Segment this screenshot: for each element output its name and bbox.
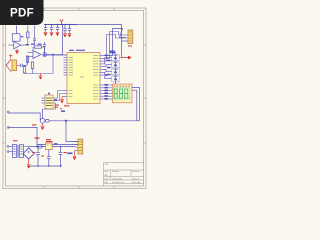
net label U4 out bbox=[54, 143, 57, 144]
designator text VCC red bbox=[35, 138, 40, 139]
wire ground rail bbox=[29, 165, 62, 167]
DS1 digit 2 bbox=[120, 89, 123, 98]
DS1 pin number text bbox=[114, 85, 131, 88]
power port VCC drivers bbox=[122, 56, 131, 59]
U4 pin text bbox=[47, 144, 52, 147]
transformer T1 bbox=[13, 145, 24, 158]
op-amp U3A box bbox=[12, 26, 20, 49]
connector J2 bbox=[128, 30, 133, 44]
designator U2 label bbox=[69, 50, 85, 51]
junction dots on rail bbox=[45, 24, 71, 26]
net label U5 bbox=[54, 99, 57, 101]
transistor Q4 bbox=[112, 62, 119, 68]
ground GND under C5 bbox=[68, 34, 72, 37]
capacitor C5 bbox=[68, 25, 71, 34]
DS1 decimal points bbox=[118, 97, 130, 100]
resistor R4 feedback bbox=[35, 46, 42, 48]
microcontroller U2 bbox=[67, 53, 100, 104]
node top of U5 bbox=[48, 92, 50, 94]
label U3 bbox=[21, 36, 24, 37]
power port VCC bbox=[60, 20, 64, 25]
DS1 green face bbox=[113, 87, 130, 100]
net labels drivers bbox=[107, 60, 111, 75]
microphone body MK1 bbox=[12, 60, 17, 71]
buzzer LS1 bbox=[45, 119, 49, 122]
designator text U5 bbox=[55, 105, 60, 108]
wire driver chain bbox=[115, 82, 117, 85]
label text below U2 bbox=[64, 105, 70, 106]
terminal AC input 2 bbox=[7, 151, 9, 153]
capacitor C8 bbox=[21, 64, 28, 67]
sheet frame outer border bbox=[3, 8, 146, 189]
label text drivers bbox=[110, 52, 115, 53]
U2 right pins bbox=[100, 56, 104, 100]
designator text T1 bbox=[13, 140, 18, 141]
capacitor C3 bbox=[56, 25, 59, 32]
node junction bbox=[44, 54, 46, 56]
ground GND opamp bbox=[39, 74, 43, 80]
net label marks bbox=[105, 55, 108, 100]
U2 left pins bbox=[64, 58, 68, 97]
ground GND under C1 bbox=[44, 32, 48, 35]
sheet frame inner border bbox=[6, 11, 144, 187]
op-amp U3B bbox=[33, 51, 41, 59]
wire bridge output rail bbox=[29, 146, 46, 148]
wire feedback loop bbox=[25, 47, 63, 74]
transistor Q2 bbox=[40, 119, 45, 124]
capacitor C9 bbox=[36, 147, 40, 167]
ground GND preamp bbox=[15, 50, 19, 53]
regulator U4 7805 bbox=[46, 143, 53, 150]
DS1 digit 3 bbox=[125, 89, 128, 98]
J3 internal pins bbox=[79, 142, 82, 151]
wire U2 to display segment lines bbox=[104, 85, 108, 99]
wire regulator output bbox=[52, 146, 74, 148]
terminal dot 1 bbox=[7, 111, 9, 113]
transistor Q3 bbox=[112, 55, 122, 61]
ground GND mic bbox=[9, 55, 12, 58]
net label SPK bbox=[61, 111, 65, 112]
wire U5 to U2 crystal pins bbox=[43, 91, 64, 110]
page background bbox=[0, 0, 149, 198]
power rail VCC wire bbox=[44, 25, 122, 58]
DS1 digit 1 bbox=[114, 89, 117, 98]
wire transformer to bridge bbox=[23, 147, 29, 157]
J3 pin stubs bbox=[75, 142, 79, 151]
transistor Q1 bbox=[43, 53, 47, 57]
designator text U4 7805 bbox=[46, 139, 53, 142]
svg-text:4-Apr-2008: 4-Apr-2008 bbox=[112, 177, 123, 180]
terminal dot 2 bbox=[7, 127, 9, 129]
wire display right returns bbox=[65, 88, 139, 122]
capacitor C7 bbox=[33, 37, 36, 44]
PDF badge bbox=[0, 0, 44, 25]
U5 pin stubs bbox=[42, 93, 50, 104]
wire mic to coupling cap bbox=[17, 64, 20, 66]
title block labels bbox=[105, 163, 142, 184]
net label bus bbox=[109, 51, 116, 54]
U2 pin name text bbox=[69, 55, 99, 99]
svg-text:Sheet of: Sheet of bbox=[132, 177, 140, 180]
designator text C9 bbox=[32, 152, 44, 157]
display pin stubs bbox=[108, 85, 112, 99]
svg-text:Drawn By:: Drawn By: bbox=[132, 182, 142, 184]
microphone MK1 bbox=[6, 59, 11, 72]
wire AC leads bbox=[9, 147, 13, 152]
capacitor C2 bbox=[50, 25, 53, 32]
ground GND under C4 bbox=[63, 34, 67, 37]
resistor R2 bbox=[26, 56, 28, 63]
svg-text:Revision: Revision bbox=[132, 171, 140, 173]
transistor Q5 bbox=[112, 69, 119, 75]
resistor R3 bbox=[23, 67, 25, 74]
capacitor C1 bbox=[44, 25, 47, 32]
transistor Q6 bbox=[112, 76, 119, 82]
terminal AC input 1 bbox=[7, 146, 9, 148]
capacitor C10 bbox=[47, 150, 51, 166]
inductor L1 bbox=[37, 145, 43, 148]
ground GND under C2 bbox=[50, 32, 54, 35]
designator text R6 bbox=[32, 124, 37, 125]
U5 internal contacts bbox=[46, 98, 52, 106]
oscillator module U5 bbox=[45, 95, 53, 109]
wire buzzer to connector riser bbox=[43, 109, 79, 142]
net label J3 bbox=[68, 153, 73, 155]
resistor R5 bbox=[31, 62, 33, 69]
capacitor C11 bbox=[59, 147, 63, 167]
svg-text:PDF: PDF bbox=[10, 8, 34, 20]
wire off-page lead 2 bbox=[8, 128, 78, 145]
designator text J2 bbox=[128, 46, 132, 47]
wire op-amp output to U2 pin row bbox=[45, 54, 68, 56]
resistor R1 bbox=[27, 32, 29, 38]
wire driver collectors chain bbox=[115, 54, 117, 85]
ground GND J3 bbox=[73, 151, 77, 160]
capacitor C6 bbox=[43, 42, 46, 55]
connector J3 bbox=[78, 139, 83, 154]
designator text C11 bbox=[64, 152, 68, 153]
wire net U2 to connector J2 nested routing bbox=[104, 29, 128, 62]
wire off-page lead 1 bbox=[8, 113, 40, 121]
capacitor C4 bbox=[63, 25, 66, 34]
frame zone ticks bbox=[3, 8, 146, 189]
wire VCC riser to U2 bbox=[62, 25, 64, 56]
ground GND U2 bbox=[60, 97, 64, 103]
J2 internal pins bbox=[129, 32, 132, 41]
ground GND bridge bbox=[27, 159, 31, 168]
svg-text:Number: Number bbox=[112, 171, 119, 173]
ground GND under C3 bbox=[56, 32, 60, 35]
wire bus U2 to drivers bbox=[104, 58, 112, 79]
title block bbox=[104, 163, 144, 187]
bridge rectifier D1 bbox=[23, 148, 34, 159]
designator red mark bbox=[60, 108, 62, 109]
ground GND Q2 bbox=[41, 123, 45, 129]
wire preamp interconnect bbox=[8, 26, 34, 51]
display DS1 bbox=[112, 84, 132, 103]
svg-text:E:\sheet1.sch: E:\sheet1.sch bbox=[112, 181, 124, 184]
net label marks preamp bbox=[26, 44, 42, 46]
